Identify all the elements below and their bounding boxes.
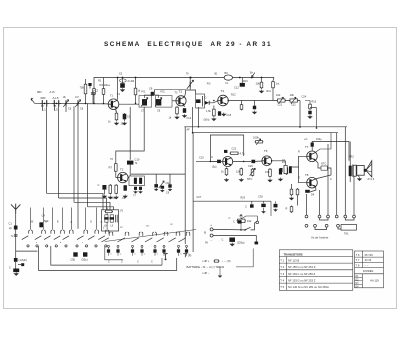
coil L1 with label 680 bbox=[40, 100, 49, 106]
wire T4 collector to volume network bbox=[228, 100, 300, 102]
driver transformer TR1 bbox=[284, 165, 287, 173]
wire T6 collector to driver transformer bbox=[272, 161, 286, 165]
antenna input arrow bbox=[31, 98, 35, 103]
switch contact S2-4 bbox=[153, 232, 157, 236]
resistor on top of coil box bbox=[105, 210, 114, 213]
switch capacitor at 178.5 bbox=[178, 245, 180, 247]
svg-text:T8: T8 bbox=[305, 173, 309, 177]
svg-text:T1: T1 bbox=[117, 92, 121, 96]
wire connector up to bus bbox=[241, 216, 257, 221]
switch contact S2-6 bbox=[176, 232, 180, 236]
wire coil L2 long leg bbox=[58, 107, 60, 199]
svg-text:T 6: T 6 bbox=[356, 253, 360, 257]
trimmer CV1 bbox=[65, 100, 67, 106]
antenna bbox=[11, 204, 20, 214]
switch contact S1-3 bbox=[51, 230, 55, 234]
battery B 9V bbox=[210, 228, 213, 231]
wire osc line over box bbox=[128, 177, 129, 179]
wire transformer leads bbox=[349, 142, 351, 166]
switch capacitor at 118 bbox=[117, 245, 119, 247]
svg-text:C30: C30 bbox=[258, 195, 263, 199]
NTC box between outputs bbox=[321, 166, 327, 170]
svg-text:• HP +: • HP + bbox=[202, 259, 210, 263]
svg-text:GO: GO bbox=[146, 226, 150, 228]
label 2n handwritten bbox=[119, 79, 126, 82]
switch contact S2-3 bbox=[139, 232, 143, 236]
junction dots on rail bbox=[117, 77, 119, 79]
T5 bias resistor bbox=[240, 168, 243, 177]
svg-text:C: C bbox=[121, 261, 123, 264]
FI3 detector transformer box bbox=[196, 94, 205, 108]
wire IF link top bbox=[145, 95, 159, 98]
jack socket J1 bbox=[163, 253, 168, 258]
wire drop to connector 4 bbox=[344, 127, 346, 215]
wire switch to connector circle bbox=[251, 222, 257, 230]
svg-text:TR: TR bbox=[282, 160, 286, 163]
svg-text:+C: +C bbox=[304, 137, 308, 141]
svg-text:10k: 10k bbox=[247, 219, 252, 223]
svg-text:T6: T6 bbox=[264, 149, 268, 153]
svg-text:NTC: NTC bbox=[321, 163, 326, 166]
loudspeaker HP bbox=[357, 161, 372, 177]
link U row1 b bbox=[345, 218, 354, 220]
svg-text:T3: T3 bbox=[179, 90, 183, 94]
transistor T8 output lower bbox=[307, 177, 318, 188]
resistor bottom cluster 2 bbox=[296, 188, 299, 196]
resistor R10 with ground bbox=[260, 81, 263, 89]
svg-text:TRANSISTORS: TRANSISTORS bbox=[284, 252, 303, 256]
wire mixer branch vertical 1 bbox=[129, 107, 131, 160]
resistor R near driver bbox=[285, 167, 288, 176]
electrolytic C27 250u bbox=[229, 238, 235, 242]
svg-text:T 5: T 5 bbox=[280, 285, 284, 289]
wire T3 collector up bbox=[185, 90, 186, 97]
wire output stage to connectors bbox=[306, 194, 308, 215]
junction dots AF bbox=[192, 132, 194, 134]
svg-text:T 4: T 4 bbox=[280, 279, 284, 283]
svg-text:A,L5: A,L5 bbox=[53, 96, 59, 100]
resistor R13 on T4 collector line bbox=[240, 104, 243, 111]
svg-text:NF 113 B: NF 113 B bbox=[288, 259, 299, 263]
wire drop to connector 3 bbox=[336, 133, 338, 215]
wire T5 collector to T6 bbox=[233, 161, 251, 163]
coupling capacitor into T6 bbox=[251, 160, 255, 163]
on-off switch lever bbox=[245, 227, 251, 230]
T5 emitter resistor bbox=[225, 168, 228, 177]
detector diode D1 bbox=[205, 101, 209, 105]
capacitor pair C30 bbox=[263, 201, 265, 210]
switch contact S2-5 bbox=[164, 232, 168, 236]
svg-text:NF 155 G ou NF 251 Z: NF 155 G ou NF 251 Z bbox=[288, 265, 316, 269]
svg-text:R10: R10 bbox=[243, 80, 248, 83]
transistor T5 AF driver bbox=[223, 157, 233, 167]
transistor table left bbox=[279, 250, 353, 290]
transistor T3 IF amplifier bbox=[176, 96, 186, 106]
switch capacitor at 186.5 bbox=[186, 245, 188, 247]
ground pad dark bbox=[255, 242, 259, 245]
transistor T1 mixer bbox=[108, 99, 119, 110]
svg-text:CV: CV bbox=[75, 95, 79, 99]
wire battery plus to switch bbox=[213, 228, 245, 231]
svg-text:C12: C12 bbox=[234, 86, 239, 90]
svg-text:4,7k: 4,7k bbox=[240, 152, 246, 156]
svg-text:T 2: T 2 bbox=[280, 265, 284, 269]
svg-text:(25): (25) bbox=[71, 258, 76, 262]
transistor T7 output upper bbox=[307, 151, 318, 162]
svg-text:O: O bbox=[90, 221, 92, 224]
svg-text:R: R bbox=[298, 151, 300, 154]
switch capacitor at 108.5 bbox=[108, 245, 110, 247]
T4 emitter capacitor bbox=[218, 111, 221, 115]
resistor R2 75k bbox=[84, 83, 87, 95]
svg-text:75k: 75k bbox=[80, 86, 85, 90]
svg-text:(250μ): (250μ) bbox=[237, 241, 245, 245]
resistor R5 emitter of T1 bbox=[115, 112, 118, 121]
wire long vertical to switch right bbox=[192, 133, 194, 252]
T4 emitter resistor 1k5 bbox=[213, 108, 216, 117]
diode D3 above T7 bbox=[311, 143, 314, 147]
svg-text:FI1: FI1 bbox=[142, 90, 146, 94]
switch capacitor at 164 bbox=[163, 245, 165, 247]
wire R2 branch down bbox=[87, 103, 89, 207]
diode D2 bias bbox=[280, 168, 283, 172]
svg-text:C: C bbox=[233, 220, 235, 224]
wire elbow bus 3 bbox=[74, 202, 110, 210]
T3 emitter capacitor bbox=[183, 108, 186, 113]
svg-text:C2: C2 bbox=[95, 89, 99, 93]
jack box TA bbox=[341, 225, 357, 231]
IF transformer FI2 box bbox=[156, 96, 173, 108]
wire T1 emitter down bbox=[116, 109, 117, 112]
wire antenna bottom branch bbox=[16, 250, 38, 252]
svg-text:R12: R12 bbox=[231, 94, 236, 97]
svg-text:AF: AF bbox=[187, 129, 191, 132]
IF transformer FI1 box bbox=[139, 96, 152, 108]
svg-text:L1: L1 bbox=[43, 108, 47, 112]
FI2 winding bbox=[156, 99, 162, 105]
svg-text:R15: R15 bbox=[312, 101, 317, 104]
FI3 winding bbox=[196, 99, 201, 103]
capacitor C3 500p near switch bbox=[39, 222, 43, 227]
svg-text:C: C bbox=[9, 266, 11, 270]
transistor table right bbox=[355, 251, 384, 288]
svg-text:NF 153 G ou NF 253 Z: NF 153 G ou NF 253 Z bbox=[288, 279, 316, 283]
resistor R11 rail end bbox=[272, 81, 275, 90]
svg-text:AA 119: AA 119 bbox=[370, 279, 379, 283]
wire AF bus lower bbox=[193, 132, 338, 134]
svg-text:TR2: TR2 bbox=[349, 156, 354, 159]
switch contact S2-2 bbox=[125, 232, 129, 236]
svg-text:FI3: FI3 bbox=[207, 83, 211, 86]
switch contact S1-1 bbox=[29, 230, 33, 234]
switch contact S1-8 bbox=[105, 230, 109, 234]
svg-text:FI2: FI2 bbox=[161, 90, 165, 94]
capacitor C8 between IF windings bbox=[151, 92, 154, 96]
wire FI2 to T3 bbox=[172, 100, 176, 102]
resistor R1 rail dropper bbox=[93, 88, 96, 96]
capacitor dark T6 emitter bbox=[279, 169, 282, 175]
T3 emitter resistor bbox=[184, 105, 185, 107]
wire HP annotation link bbox=[236, 249, 253, 267]
svg-text:100μ: 100μ bbox=[316, 138, 322, 141]
svg-text:T2: T2 bbox=[120, 168, 124, 172]
svg-text:C8: C8 bbox=[149, 87, 153, 91]
wire antenna stem bbox=[15, 213, 17, 226]
svg-text:6R0: 6R0 bbox=[37, 91, 42, 94]
svg-text:C: C bbox=[222, 238, 224, 242]
capacitor C 2u bbox=[13, 269, 19, 273]
padder trimmer with cap bbox=[159, 181, 164, 188]
wire NTC to T8 collector bbox=[316, 168, 332, 179]
wire to T8 base bbox=[299, 167, 307, 183]
osc emitter capacitor C11 bbox=[102, 185, 106, 190]
switch contact S1-7 bbox=[95, 230, 99, 234]
thermistor with arrow above T3 bbox=[189, 82, 191, 88]
wire bus drop mid bbox=[161, 258, 163, 265]
svg-text:C: C bbox=[98, 183, 100, 187]
capacitor C29 on mid bus bbox=[251, 201, 253, 204]
wire main RF signal line bbox=[35, 102, 109, 105]
capacitor C31 bbox=[275, 201, 277, 203]
svg-text:B0: B0 bbox=[225, 71, 229, 75]
ground antenna chain bbox=[14, 272, 18, 275]
coil L2 with label L2 L5 bbox=[52, 100, 61, 106]
wire T1 base into FI1 bbox=[119, 103, 139, 105]
link row2 bbox=[315, 227, 327, 229]
note ground bbox=[219, 267, 221, 275]
svg-text:(50μ): (50μ) bbox=[82, 258, 88, 262]
wire coil L2 legs short bbox=[54, 107, 56, 111]
capacitor C12 on rail bbox=[240, 83, 245, 87]
svg-text:PO: PO bbox=[120, 227, 123, 229]
capacitor C10 osc feedback bbox=[127, 161, 133, 165]
resistor R4 from rail bbox=[135, 78, 137, 88]
svg-text:10n: 10n bbox=[121, 123, 126, 126]
svg-text:C: C bbox=[151, 261, 153, 264]
wire battery minus bottom bbox=[213, 236, 256, 242]
resistor under output bbox=[290, 206, 293, 214]
wire AF signal into driver bbox=[196, 160, 217, 162]
svg-text:10k: 10k bbox=[290, 93, 295, 97]
svg-text:OC: OC bbox=[170, 224, 174, 226]
svg-text:R20: R20 bbox=[241, 197, 246, 200]
wire elbow bus 2 bbox=[59, 198, 107, 210]
svg-text:NF 194 C ou NF 259 Z: NF 194 C ou NF 259 Z bbox=[288, 272, 316, 276]
decoupling resistor RC cell bbox=[309, 103, 312, 110]
NTC resistor with arrow bbox=[251, 168, 254, 177]
svg-text:150: 150 bbox=[265, 170, 270, 174]
wire trimmer CV1 stub bbox=[65, 106, 67, 112]
resistor R bias T6 horizontal bbox=[255, 141, 264, 143]
svg-text:C: C bbox=[211, 155, 213, 159]
wire bottom bus 3 short bbox=[105, 246, 123, 260]
switch contact S2-1 bbox=[109, 232, 113, 236]
capacitor C16 50u below switch bbox=[83, 252, 87, 256]
wire T7 collector to transformer bottom bbox=[316, 133, 332, 153]
svg-text:1,5k: 1,5k bbox=[206, 110, 211, 113]
junction dots main line bbox=[44, 103, 46, 105]
wire bottom bus 1 bbox=[51, 246, 162, 265]
svg-text:DIODES: DIODES bbox=[363, 269, 374, 273]
transistor T4 AF preamp bbox=[218, 95, 229, 106]
B+ arrow at rail bbox=[252, 73, 255, 78]
switch capacitor at 155 bbox=[154, 245, 156, 247]
wire coil L1 legs short bbox=[42, 107, 44, 111]
svg-text:C15: C15 bbox=[227, 114, 232, 117]
switch capacitor at 132.5 bbox=[132, 245, 134, 247]
svg-text:TA1: TA1 bbox=[344, 232, 349, 236]
T6 emitter resistor bbox=[269, 168, 272, 178]
wire coil L1 long leg bbox=[46, 107, 48, 194]
wire pot to battery line bbox=[240, 223, 242, 230]
svg-text:100k: 100k bbox=[253, 136, 259, 140]
FI1 winding bbox=[142, 99, 147, 105]
wire mixer branch vertical 2 bbox=[116, 107, 144, 163]
svg-text:C14: C14 bbox=[187, 117, 192, 120]
svg-text:T7: T7 bbox=[305, 145, 309, 149]
wire bottom bus 2 bbox=[39, 246, 177, 270]
link U row1 a bbox=[320, 218, 329, 220]
svg-text:(50n): (50n) bbox=[204, 119, 210, 122]
resistor bottom cluster 1 bbox=[290, 188, 293, 196]
svg-text:10k: 10k bbox=[256, 82, 261, 86]
svg-text:C26: C26 bbox=[248, 164, 253, 168]
wire AF feedback frame bbox=[210, 135, 243, 156]
wire drop to connector 2 bbox=[327, 144, 329, 215]
osc transformer box bbox=[129, 176, 144, 186]
svg-text:D: D bbox=[205, 96, 207, 100]
svg-text:R: R bbox=[298, 177, 300, 180]
wire drop to connector 1 bbox=[319, 190, 321, 215]
switch contact S2-7 bbox=[186, 232, 190, 236]
svg-text:10k: 10k bbox=[276, 93, 281, 97]
capacitor C1 antenna series bbox=[14, 226, 18, 230]
svg-text:(?): (?) bbox=[120, 210, 123, 213]
wire vertical from detector area bbox=[192, 107, 194, 133]
svg-text:T 7: T 7 bbox=[356, 258, 360, 262]
wire T3 collector to FI3 bbox=[186, 90, 196, 94]
svg-text:R3 10kω: R3 10kω bbox=[100, 83, 111, 87]
svg-text:T 3: T 3 bbox=[280, 272, 284, 276]
coupling capacitor C20 into T5 bbox=[217, 160, 221, 163]
switch contact S1-5 bbox=[70, 230, 74, 234]
coil box windings bbox=[105, 215, 108, 222]
padder capacitor Cp2 bbox=[168, 184, 171, 187]
wire vertical from detector area 2 bbox=[198, 107, 200, 127]
wire T8 emitter cluster bbox=[310, 187, 316, 192]
wire elbow bus 4 bbox=[88, 207, 114, 210]
svg-text:A L5: A L5 bbox=[50, 91, 56, 94]
diode table subrows bbox=[355, 277, 363, 284]
switch contact S1-2 bbox=[42, 230, 46, 234]
potentiometer P2 tone bbox=[289, 99, 299, 102]
svg-text:40 32: 40 32 bbox=[365, 258, 372, 262]
wire output top line bbox=[312, 142, 349, 161]
wire C10 down to osc box bbox=[129, 165, 131, 176]
svg-text:C: C bbox=[229, 216, 231, 220]
svg-text:R: R bbox=[286, 207, 288, 211]
wire long vertical to switch left bbox=[184, 127, 186, 244]
svg-text:• M → A (≈) TRANS: • M → A (≈) TRANS bbox=[202, 265, 225, 269]
wire top supply rail bbox=[94, 78, 274, 104]
osc box capacitors below bbox=[134, 187, 137, 190]
svg-text:680: 680 bbox=[41, 96, 46, 100]
svg-text:−: − bbox=[211, 238, 213, 242]
svg-text:L5: L5 bbox=[55, 108, 59, 112]
switch wiper circles row bbox=[27, 245, 29, 247]
svg-text:C: C bbox=[108, 261, 110, 264]
osc resistor Ra bbox=[109, 184, 112, 195]
svg-text:D4: D4 bbox=[311, 193, 315, 197]
wire mid bus 201 bbox=[193, 200, 271, 202]
svg-text:R11: R11 bbox=[267, 90, 272, 93]
svg-text:BATTERIE: BATTERIE bbox=[187, 265, 201, 269]
capacitor C17 to ground bbox=[253, 106, 256, 110]
capacitor C15 25u below switch bbox=[73, 252, 77, 256]
osc capacitor dark Rc bbox=[124, 185, 127, 191]
transistor T6 driver bbox=[262, 156, 272, 166]
svg-text:NC 140 N ou NC 281 ou NC 281A: NC 140 N ou NC 281 ou NC 281A bbox=[288, 285, 329, 289]
capacitor C 1,8uF bbox=[14, 258, 18, 262]
svg-text:C10: C10 bbox=[135, 158, 140, 162]
svg-text:C: C bbox=[330, 178, 332, 181]
transistor T2 oscillator bbox=[118, 172, 128, 182]
capacitor C2 coupling bbox=[92, 90, 94, 103]
svg-text:Z=1,5: Z=1,5 bbox=[368, 177, 375, 181]
svg-text:15k: 15k bbox=[236, 170, 241, 174]
capacitor C5 2n rail decoupling bbox=[120, 83, 125, 88]
svg-text:C24: C24 bbox=[302, 96, 307, 99]
junction dot rail R10 bbox=[251, 77, 253, 79]
wire AF bus upper bbox=[184, 126, 347, 128]
resistor R7 osc base bbox=[115, 163, 118, 173]
capacitor C6 emitter bypass bbox=[123, 114, 127, 120]
wire drop to connector 5 bbox=[353, 176, 355, 215]
svg-text:C21: C21 bbox=[278, 104, 283, 107]
svg-text:C27: C27 bbox=[197, 196, 202, 199]
switch contact S1-6 bbox=[84, 230, 88, 234]
svg-text:T 1: T 1 bbox=[280, 259, 284, 263]
switch feed stubs bbox=[30, 208, 32, 230]
wire bus end down bbox=[270, 201, 272, 216]
wire driver to output bases bbox=[292, 156, 307, 167]
svg-text:C19: C19 bbox=[199, 157, 204, 160]
svg-text:NTC: NTC bbox=[247, 177, 252, 181]
connector row 2 bbox=[305, 224, 308, 227]
capacitor above T5 bbox=[224, 150, 227, 153]
svg-text:C22: C22 bbox=[291, 104, 296, 107]
svg-text:T 8: T 8 bbox=[356, 264, 360, 268]
ground speaker return bbox=[358, 177, 362, 180]
svg-text:9V: 9V bbox=[205, 242, 208, 245]
svg-text:→−− (5): →−− (5) bbox=[221, 259, 231, 263]
svg-text:25 746: 25 746 bbox=[365, 253, 374, 257]
svg-text:T4: T4 bbox=[221, 89, 225, 93]
svg-text:R7: R7 bbox=[109, 166, 113, 170]
wire AVC feedback line bbox=[155, 89, 186, 91]
svg-text:(P): (P) bbox=[188, 255, 192, 258]
wire volume line down right bbox=[299, 101, 301, 129]
svg-text:• HP −: • HP − bbox=[202, 271, 210, 275]
wire trimmer CV2 long leg bbox=[73, 106, 75, 202]
wire decouple to bus bbox=[316, 108, 318, 129]
capacitor C28 near switch bbox=[238, 220, 242, 223]
wire elbow bus 1 bbox=[47, 193, 104, 210]
svg-text:B: B bbox=[204, 231, 206, 235]
svg-text:(5μ): (5μ) bbox=[212, 166, 217, 169]
switch contact S1-4 bbox=[61, 230, 65, 234]
trimmer CV2 bbox=[77, 100, 79, 106]
